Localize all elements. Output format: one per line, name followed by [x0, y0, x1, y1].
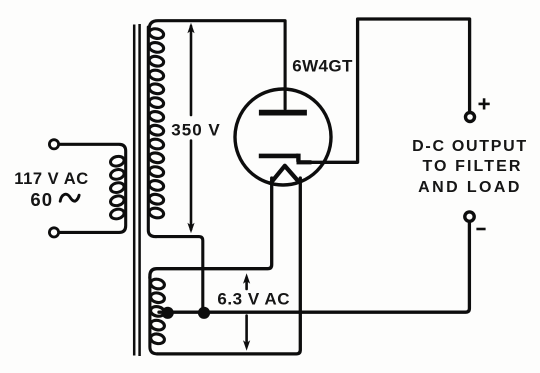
transformer core T1: [134, 24, 139, 356]
svg-text:117 V AC: 117 V AC: [14, 170, 88, 188]
transformer HV secondary winding (350V): [148, 27, 164, 237]
svg-text:TO FILTER: TO FILTER: [422, 158, 522, 175]
tube cathode: [259, 154, 358, 163]
svg-text:D-C OUTPUT: D-C OUTPUT: [412, 138, 528, 155]
terminal: - output: [465, 212, 474, 221]
tube plate (anode) bar: [259, 110, 307, 116]
transformer 6.3V winding: [150, 277, 166, 354]
svg-text:60: 60: [30, 189, 53, 210]
wire: cathode to + terminal: [358, 19, 470, 162]
svg-text:AND LOAD: AND LOAD: [418, 179, 522, 196]
label: -: [476, 228, 485, 231]
terminal: + output: [466, 113, 475, 122]
label: D-C OUTPUT TO FILTER AND LOAD: [412, 138, 528, 196]
junction dot: HV bottom node: [198, 307, 210, 319]
wire: HV secondary top to tube plate: [149, 21, 285, 109]
terminal: 117V AC top: [49, 140, 58, 149]
wire: 6.3V winding bottom to heater right lead: [158, 178, 301, 354]
junction dot: winding tap: [162, 307, 174, 319]
350V dimension arrow: [187, 23, 194, 233]
6.3V dimension arrow: [243, 273, 250, 351]
transformer primary winding (117V): [60, 144, 126, 232]
AC cycle symbol: [60, 194, 79, 201]
wire: heater left lead to 6.3V winding top: [150, 178, 272, 278]
svg-text:6.3 V AC: 6.3 V AC: [217, 289, 290, 308]
wire: HV secondary bottom lead to node: [156, 237, 203, 308]
label: +: [479, 98, 490, 109]
wire: tap node to - terminal: [159, 222, 469, 312]
tube heater filament: [272, 166, 299, 182]
svg-text:6W4GT: 6W4GT: [292, 57, 353, 76]
terminal: 117V AC bottom: [49, 228, 58, 237]
tube V1 envelope (6W4GT): [235, 89, 331, 185]
svg-text:350 V: 350 V: [171, 121, 220, 140]
